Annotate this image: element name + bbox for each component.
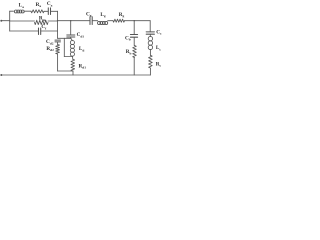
wire d-network to rail — [72, 71, 74, 75]
inductor Lc coil — [148, 36, 152, 49]
wire parallel left leg — [63, 38, 65, 56]
svg-text:Cd1: Cd1 — [77, 32, 85, 38]
svg-text:Cb: Cb — [125, 35, 131, 41]
resistor Rd1 zigzag — [71, 59, 75, 71]
wire Rc to rail — [149, 68, 151, 75]
wire bottom rail — [1, 74, 150, 76]
wire join to Rd1 — [72, 57, 74, 60]
wire Cd1 to connector — [70, 37, 72, 38]
wire top branch lead-in — [10, 10, 14, 12]
svg-text:Cg: Cg — [86, 11, 92, 17]
wire Lg to Rg — [108, 20, 113, 22]
svg-text:Rg: Rg — [119, 12, 125, 18]
svg-text:Rd2: Rd2 — [46, 46, 54, 52]
circuit schematic: electroacoustic transducer equivalent circuit — [0, 0, 163, 80]
wire Rb to rail — [133, 58, 135, 76]
svg-text:Rd1: Rd1 — [79, 63, 87, 69]
wire Rd2 to bottom junction — [57, 54, 59, 71]
wire right rail of parallel box — [57, 11, 59, 38]
wire Lc to Rc — [149, 50, 151, 56]
capacitor Cd2 plates — [55, 40, 60, 42]
wire connector node B to node D — [58, 37, 71, 39]
wire middle branch right — [48, 20, 58, 22]
wire middle branch left — [10, 20, 35, 22]
svg-text:Rm: Rm — [39, 16, 46, 22]
wire corner to Cc — [149, 21, 151, 32]
resistor Rc zigzag — [149, 55, 153, 68]
svg-text:Lc: Lc — [156, 45, 161, 51]
wire Ra to Ca — [44, 10, 48, 12]
svg-text:Ld: Ld — [79, 46, 84, 52]
terminal dot bottom — [0, 74, 2, 76]
capacitor Cc plates — [146, 32, 154, 34]
wire bottom branch left — [10, 30, 39, 32]
svg-text:Cf: Cf — [41, 24, 47, 30]
wire Rg to corner — [125, 20, 151, 22]
wire Ld top stub — [71, 38, 73, 40]
capacitor Cg plates — [90, 17, 92, 25]
wire Cd2 to Rd2 — [57, 42, 59, 44]
wire node B to Cg — [58, 20, 90, 22]
wire drop to Cb — [133, 21, 135, 35]
resistor Ra zigzag — [31, 10, 44, 13]
svg-text:La: La — [19, 3, 24, 9]
capacitor Cb plates — [130, 35, 137, 38]
terminal dot input + — [0, 20, 2, 22]
wire bottom branch right — [41, 30, 58, 32]
svg-text:Cd2: Cd2 — [46, 39, 54, 45]
capacitor Cf plates — [39, 28, 41, 35]
inductor La coil — [14, 10, 24, 13]
wire Ca to right rail — [51, 10, 58, 12]
junction dot node B — [57, 20, 58, 21]
inductor Ld coil — [70, 41, 74, 57]
capacitor Ca plates — [48, 8, 50, 15]
wire Cc to Lc — [149, 34, 151, 36]
wire d-network bottom junction — [58, 70, 73, 72]
resistor Rb zigzag — [133, 46, 137, 58]
svg-text:Cc: Cc — [156, 29, 162, 35]
svg-text:Ra: Ra — [36, 2, 42, 8]
junction dot node C — [70, 20, 71, 21]
svg-text:Rc: Rc — [156, 61, 162, 67]
wire left rail of parallel box — [9, 11, 11, 31]
resistor Rm zigzag — [35, 20, 49, 24]
resistor Rd2 zigzag — [56, 45, 60, 55]
wire Cb to Rb — [133, 37, 135, 45]
resistor Rg zigzag — [113, 19, 125, 22]
wire input terminal to node A — [1, 20, 10, 22]
svg-text:Lg: Lg — [100, 12, 105, 18]
junction dot node E — [134, 20, 135, 21]
svg-text:Rb: Rb — [126, 49, 132, 55]
wire parallel bottom join — [64, 56, 72, 58]
wire Cg to Lg — [92, 20, 97, 22]
inductor Lg coil — [98, 21, 108, 24]
svg-text:Ca: Ca — [47, 1, 53, 7]
capacitor Cd1 plates — [67, 35, 75, 37]
wire drop to Cd1 — [70, 21, 72, 35]
wire coil to Ra — [24, 10, 31, 12]
